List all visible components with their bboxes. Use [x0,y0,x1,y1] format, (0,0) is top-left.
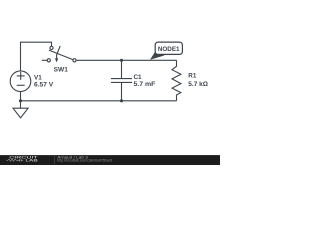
node flag NODE1 box [155,42,182,54]
footer logo zigzag + cap [7,159,24,162]
switch SW1 common terminal [73,59,76,62]
svg-text:LAB: LAB [25,158,38,163]
footer separator [53,156,55,165]
svg-text:NODE1: NODE1 [158,46,180,53]
ground [20,101,22,108]
svg-text:C1: C1 [134,74,143,81]
switch SW1 actuator arrow [57,46,61,59]
switch SW1 top throw terminal [50,46,53,49]
wire top: SW1 common to R1 [76,59,176,61]
wire bottom [21,100,177,102]
footer bar [0,155,220,165]
node junction C1 top [120,59,123,62]
svg-text:SW1: SW1 [54,67,69,74]
switch SW1 arm [49,50,73,60]
svg-text:R1: R1 [188,73,197,80]
svg-text:5.7 kΩ: 5.7 kΩ [188,81,208,88]
wire V1 top to SW1 throw [21,42,52,71]
switch SW1 left throw terminal [47,59,50,62]
svg-text:5.7 mF: 5.7 mF [134,81,156,88]
node junction C1 bottom [120,99,123,102]
resistor R1 [172,60,181,101]
capacitor C1 [121,60,123,78]
node flag NODE1 pointer [150,51,165,60]
node junction V1 bottom / ground [19,99,22,102]
wire SW1 left throw stub [42,59,47,61]
voltage source V1 [10,71,31,92]
wire V1 bottom [20,91,22,101]
svg-text:6.57 V: 6.57 V [34,82,54,89]
svg-text:http://circuitlab.com/c3km6u67: http://circuitlab.com/c3km6u6765xw3 [57,159,112,163]
